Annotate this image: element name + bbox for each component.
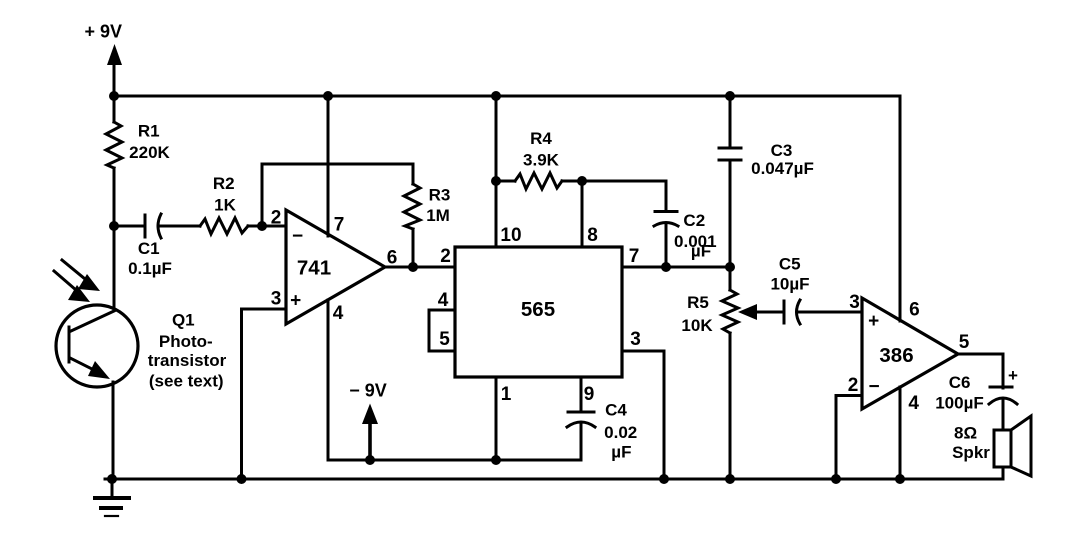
R5 wiper arrow [738,304,784,320]
C2 value label [674,211,717,261]
wire: 741 pin 7 to +9V rail [327,96,330,236]
R2 value label [213,174,237,215]
wire: R4 node to C2 [582,181,666,211]
Q1 light arrow upper [62,260,100,291]
svg-text:5: 5 [959,332,970,353]
Q1 light arrow lower [54,271,90,302]
svg-text:8: 8 [587,225,598,246]
svg-text:µF: µF [611,443,631,462]
C5 value label [770,255,809,294]
svg-text:0.047µF: 0.047µF [751,159,814,178]
svg-text:+: + [1008,366,1018,385]
svg-text:1K: 1K [214,196,236,215]
speaker LS1 [994,416,1031,479]
node: rail / 565 pin10 junction [491,91,501,101]
svg-text:10K: 10K [681,316,713,335]
resistor R1 [106,96,122,226]
svg-text:5: 5 [439,329,450,350]
svg-text:100µF: 100µF [935,394,984,413]
wire: feedback top run to R3 [262,163,413,166]
svg-text:220K: 220K [129,143,170,162]
capacitor C1 [114,214,200,238]
svg-text:7: 7 [629,246,640,267]
svg-text:9: 9 [584,384,595,405]
wire: 565 pin 1 to -9V run [495,377,498,460]
wire: right drop from rail to 386 pin 6 [899,96,902,321]
op-amp U3 386 [862,298,958,409]
capacitor C4 [567,377,595,460]
wire: top +9V rail [114,95,900,98]
ground symbol [95,479,129,516]
svg-text:3: 3 [271,289,282,310]
svg-text:741: 741 [297,257,331,280]
svg-text:386: 386 [879,344,913,367]
node: pin7 / C3 / R5 junction [725,262,735,272]
Q1 label [148,311,227,391]
node: ground rail / R5 junction [725,474,735,484]
svg-text:µF: µF [691,242,711,261]
svg-text:565: 565 [521,298,555,321]
node: -9V arrow junction [365,455,375,465]
-9V supply arrow [362,404,378,461]
C6 value label [935,373,984,413]
wire: 741 pin 4 down [327,300,330,460]
resistor R3 [404,164,420,267]
wire: bottom ground rail [105,478,1003,481]
svg-text:−: − [868,377,879,398]
svg-text:C6: C6 [949,373,971,392]
svg-text:3: 3 [630,329,641,350]
svg-text:+: + [868,311,879,332]
svg-text:C3: C3 [771,141,793,160]
wire: 741 output to 565 pin 2 [385,266,455,269]
node: ground rail / 565 pin3 junction [659,474,669,484]
speaker label [952,423,990,462]
svg-text:−: − [292,226,303,247]
svg-text:− 9V: − 9V [349,381,387,401]
svg-text:4: 4 [333,303,344,324]
node: ground rail / 386 pin4 junction [895,474,905,484]
resistor R2 [200,218,286,234]
capacitor C5 [784,300,862,324]
node: pin7 / C2 junction [661,262,671,272]
wire: 565 pin 8 to R4 [581,181,584,247]
node: ground rail / 741 pin3 junction [237,474,247,484]
svg-text:(see text): (see text) [149,372,224,391]
svg-text:0.1µF: 0.1µF [128,259,172,278]
wire: 386 pin 4 drop [899,387,902,479]
wire: feedback riser from pin2 node [261,164,264,226]
svg-text:transistor: transistor [148,351,227,370]
svg-text:6: 6 [387,248,398,269]
svg-text:2: 2 [848,375,859,396]
svg-text:R1: R1 [138,122,160,141]
svg-text:6: 6 [909,300,920,321]
svg-text:R2: R2 [213,174,235,193]
svg-text:+: + [290,291,301,312]
R1 value label [129,122,170,163]
wire: 565 pin 10 to rail [495,96,498,246]
svg-text:7: 7 [334,215,345,236]
node: R4 / pin8 junction [577,176,587,186]
svg-text:R3: R3 [429,186,451,205]
svg-text:8Ω: 8Ω [954,423,977,442]
svg-text:Photo-: Photo- [159,332,213,351]
svg-text:10µF: 10µF [770,275,809,294]
wire: 386 output pin 5 to C6 [958,354,1003,388]
potentiometer R5 [722,267,738,479]
svg-text:C2: C2 [683,211,705,230]
svg-text:R4: R4 [530,129,552,148]
svg-text:2: 2 [440,246,451,267]
R3 value label [426,186,450,226]
node: pin10 / R4 junction [491,176,501,186]
R4 value label [523,129,560,170]
node: output / R3 junction [408,262,418,272]
svg-text:Spkr: Spkr [952,443,990,462]
svg-text:1M: 1M [426,206,450,225]
node: pin1 / -9V junction [491,455,501,465]
svg-text:R5: R5 [687,293,709,312]
IC U2 565 [455,247,622,377]
+9V supply arrow [107,44,122,96]
C4 value label [604,401,637,462]
C3 value label [751,141,814,178]
svg-text:3: 3 [849,292,860,313]
svg-text:C1: C1 [138,239,160,258]
wire: 386 pin 2 stub [836,396,862,480]
node: rail / R1 junction [109,91,119,101]
R5 value label [681,293,713,335]
capacitor C6 [989,387,1017,430]
op-amp U1 741 [286,210,385,324]
node: ground rail / 386 pin2 junction [831,474,841,484]
C1 value label [128,239,172,278]
wire: 565 pin 7 run [622,266,730,269]
svg-text:10: 10 [500,225,521,246]
wire: 565 pin 3 to ground rail [622,351,664,479]
svg-text:C4: C4 [605,401,627,420]
565 pin 4/5 loop [429,310,455,351]
node: rail / 741 pin7 junction [323,91,333,101]
svg-text:+ 9V: + 9V [85,22,123,42]
svg-text:4: 4 [438,290,449,311]
capacitor C2 [654,212,678,268]
wire: 741 pin 3 stub [242,308,287,311]
resistor R4 [496,173,582,189]
svg-text:2: 2 [271,208,282,229]
svg-text:1: 1 [501,384,512,405]
node: R2 / feedback / 741 pin2 junction [257,221,267,231]
phototransistor Q1 [56,226,138,479]
node: R1 / C1 / Q1 collector junction [109,221,119,231]
capacitor C3 [719,96,741,267]
node: ground rail / Q1 emitter junction [107,474,117,484]
svg-text:3.9K: 3.9K [523,151,560,170]
svg-text:0.02: 0.02 [604,423,637,442]
svg-text:4: 4 [908,393,919,414]
svg-text:Q1: Q1 [172,311,195,330]
wire: -9V run to C4 [328,459,581,462]
svg-text:C5: C5 [779,255,801,274]
wire: 741 pin 3 drop to ground rail [240,309,243,479]
node: rail / C3 junction [725,91,735,101]
